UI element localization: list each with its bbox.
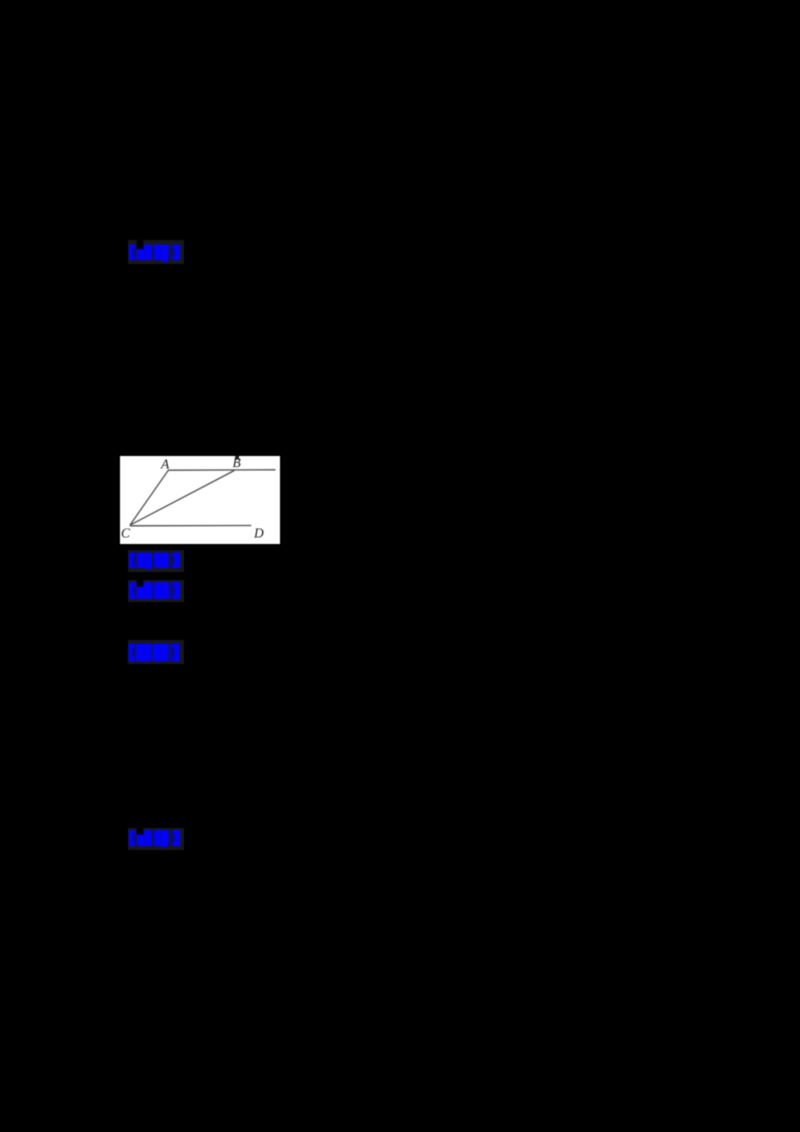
line AB (top horizontal from A rightwards) [168, 468, 276, 470]
blue tag 5 dian-jing [128, 828, 184, 850]
svg-text:B: B [233, 456, 241, 470]
svg-text:A: A [160, 456, 170, 471]
line CD (bottom horizontal) [130, 524, 252, 526]
segment CB [130, 470, 234, 525]
small dark notch on top edge above B [235, 456, 239, 460]
blue tag 2 da-an [128, 550, 184, 572]
figure: white image box with parallel-lines diagram [120, 456, 280, 545]
blue tag 1 dian-jing [128, 240, 184, 264]
segment CA [130, 470, 168, 525]
blue tag 4 xiang-jie [128, 640, 184, 664]
svg-text:C: C [121, 525, 131, 540]
blue tag 3 fen-xi [128, 580, 184, 602]
svg-text:D: D [253, 525, 264, 540]
